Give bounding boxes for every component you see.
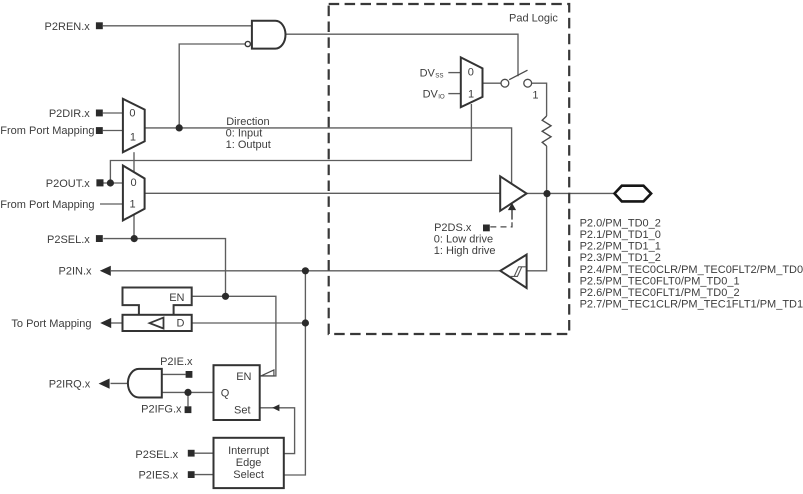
wire Direction node riser to NAND bubble: [179, 44, 245, 128]
svg-text:0: Input: 0: Input: [226, 128, 263, 140]
svg-text:IO: IO: [438, 94, 445, 101]
svg-text:P2.6/PM_TEC0FLT1/PM_TD0_2: P2.6/PM_TEC0FLT1/PM_TD0_2: [580, 287, 740, 299]
driver strength arrow P2DS: [508, 203, 516, 210]
svg-text:EN: EN: [169, 292, 184, 304]
svg-text:P2.7/PM_TEC1CLR/PM_TEC1FLT1/PM: P2.7/PM_TEC1CLR/PM_TEC1FLT1/PM_TD1_0: [580, 299, 803, 311]
wire pad input to interrupt edge select: [284, 271, 306, 475]
terminal square P2IE.x: [186, 371, 193, 378]
junction dot latch enable node: [222, 293, 229, 300]
nand gate U1: [252, 21, 286, 49]
junction dot P2SEL node: [131, 235, 138, 242]
svg-text:1: 1: [468, 89, 474, 101]
terminal square P2IES.x: [188, 471, 195, 478]
arrowhead P2IN.x: [100, 266, 111, 276]
mux P2OUT: [123, 166, 145, 221]
svg-text:Pad Logic: Pad Logic: [509, 12, 558, 24]
and gate P2IRQ: [128, 369, 162, 398]
svg-text:1: 1: [130, 199, 136, 211]
wire P2DS arrow shaft: [511, 210, 513, 220]
terminal square P2SEL.x interrupt: [188, 450, 195, 457]
wire P2SEL.x to interrupt edge select: [195, 452, 214, 454]
terminal square P2DS.x: [483, 225, 490, 232]
svg-text:P2IRQ.x: P2IRQ.x: [49, 379, 91, 391]
svg-text:0: 0: [129, 108, 135, 120]
wire P2IE.x to AND gate: [162, 373, 186, 375]
wire P2IES.x to interrupt edge select: [195, 474, 214, 476]
wire P2IN.x line: [111, 270, 500, 272]
interrupt flag flip-flop: [214, 365, 260, 420]
svg-text:SS: SS: [435, 73, 443, 80]
svg-text:To Port Mapping: To Port Mapping: [11, 318, 91, 330]
terminal square P2OUT.x: [96, 179, 103, 186]
svg-text:P2.4/PM_TEC0CLR/PM_TEC0FLT2/PM: P2.4/PM_TEC0CLR/PM_TEC0FLT2/PM_TD0_0: [580, 264, 803, 276]
terminal square P2DIR.x: [96, 110, 103, 117]
wire P2SEL select vertical to muxes: [133, 152, 135, 238]
svg-text:1: Output: 1: Output: [226, 139, 271, 151]
junction dot pad node: [543, 190, 550, 197]
switch contact circle right: [524, 79, 532, 87]
wire NAND output to switch control: [286, 34, 519, 76]
svg-text:Direction: Direction: [226, 116, 269, 128]
junction dot P2IFG node: [184, 389, 191, 396]
resistor R pullup: [542, 116, 551, 146]
wire DVss to pull mux: [448, 72, 461, 74]
svg-text:P2DIR.x: P2DIR.x: [49, 108, 90, 120]
arrowhead To Port Mapping: [100, 318, 111, 328]
flip-flop edge trigger symbol: [261, 370, 274, 376]
svg-text:P2.1/PM_TD1_0: P2.1/PM_TD1_0: [580, 229, 661, 241]
mux P2DIR: [123, 99, 145, 152]
svg-text:From Port Mapping: From Port Mapping: [0, 125, 94, 137]
wire From Port Mapping to mux input 1: [103, 130, 123, 132]
junction dot P2OUT node: [107, 179, 114, 186]
schmitt trigger input buffer: [500, 255, 526, 288]
switch contact circle left: [501, 79, 509, 87]
svg-text:P2SEL.x: P2SEL.x: [47, 234, 90, 246]
wire resistor to pad node: [546, 146, 548, 193]
svg-text:P2OUT.x: P2OUT.x: [46, 178, 91, 190]
terminal square From Port Mapping: [96, 127, 103, 134]
mux pull-up/down DVss DVio: [461, 57, 483, 107]
junction dot P2IN node: [302, 267, 309, 274]
svg-text:P2.0/PM_TD0_2: P2.0/PM_TD0_2: [580, 217, 661, 229]
wire pull mux output to switch: [483, 82, 501, 84]
arrowhead flip-flop Set input: [272, 404, 279, 411]
svg-text:P2IE.x: P2IE.x: [160, 356, 193, 368]
wire P2IRQ.x from AND gate: [111, 382, 129, 384]
svg-text:0: Low drive: 0: Low drive: [434, 234, 493, 246]
input latch EN box: [123, 288, 192, 315]
wire P2OUT.x to mux input 0: [103, 182, 123, 184]
wire Q output to AND gate and P2IFG.x: [162, 392, 214, 406]
svg-text:D: D: [177, 318, 185, 330]
pad logic dashed border: [329, 4, 570, 334]
svg-text:P2IFG.x: P2IFG.x: [141, 404, 182, 416]
wire P2DS.x dashed to driver strength: [490, 222, 512, 227]
svg-text:Select: Select: [233, 469, 264, 481]
terminal square P2REN.x: [96, 22, 103, 29]
svg-text:1: High drive: 1: High drive: [434, 245, 496, 257]
arrowhead P2IRQ.x: [99, 379, 110, 389]
svg-text:P2.2/PM_TD1_1: P2.2/PM_TD1_1: [580, 241, 661, 253]
terminal square P2IFG.x: [185, 406, 192, 413]
wire EN latch enable to flip-flop trigger: [192, 296, 276, 376]
svg-text:P2IES.x: P2IES.x: [138, 470, 178, 482]
wire P2OUT mux output to driver input: [145, 192, 501, 194]
pad hexagon: [615, 186, 652, 202]
wire P2DIR.x to mux input 0: [103, 112, 123, 114]
svg-text:P2.5/PM_TEC0FLT0/PM_TD0_1: P2.5/PM_TEC0FLT0/PM_TD0_1: [580, 275, 740, 287]
svg-text:0: 0: [468, 67, 474, 79]
buffer triangle in D latch: [150, 318, 164, 329]
output driver buffer: [500, 176, 526, 211]
wire Direction output to driver enable: [145, 128, 512, 184]
junction dot Direction node: [176, 124, 183, 131]
svg-text:P2SEL.x: P2SEL.x: [135, 449, 178, 461]
svg-text:Edge: Edge: [236, 457, 262, 469]
wire P2OUT node to pull mux select: [110, 104, 471, 183]
wire pad node to Schmitt trigger input: [527, 193, 547, 270]
svg-text:1: 1: [130, 131, 136, 143]
svg-text:EN: EN: [236, 371, 251, 383]
switch lever: [509, 70, 527, 80]
wire To Port Mapping: [111, 322, 122, 324]
svg-text:Q: Q: [221, 388, 230, 400]
svg-text:From Port Mapping: From Port Mapping: [0, 199, 94, 211]
svg-text:P2.3/PM_TD1_2: P2.3/PM_TD1_2: [580, 252, 661, 264]
svg-text:1: 1: [532, 90, 538, 102]
wire DVio to pull mux: [448, 93, 461, 95]
interrupt edge select box: [214, 438, 284, 488]
input latch D box: [123, 315, 192, 331]
wire P2SEL.x to latch enable: [103, 239, 225, 297]
terminal square P2SEL.x: [96, 235, 103, 242]
svg-text:DV: DV: [420, 67, 436, 79]
wire P2REN.x to NAND input: [103, 25, 252, 27]
wire interrupt edge select to flip-flop Set: [260, 408, 295, 454]
wire D latch input: [192, 322, 306, 324]
schmitt hysteresis symbol: [510, 267, 526, 277]
svg-text:P2IN.x: P2IN.x: [58, 265, 92, 277]
svg-text:P2DS.x: P2DS.x: [434, 222, 472, 234]
wire driver output to pad: [527, 192, 615, 194]
nand gate U1 input bubble: [245, 41, 250, 46]
wire switch to resistor: [532, 83, 547, 116]
svg-text:DV: DV: [423, 89, 439, 101]
svg-text:P2REN.x: P2REN.x: [45, 21, 91, 33]
svg-text:Set: Set: [234, 405, 251, 417]
junction dot D latch node: [302, 319, 309, 326]
wire From Port Mapping 2 to mux input 1: [100, 203, 123, 205]
svg-text:0: 0: [130, 177, 136, 189]
svg-text:Interrupt: Interrupt: [228, 445, 269, 457]
